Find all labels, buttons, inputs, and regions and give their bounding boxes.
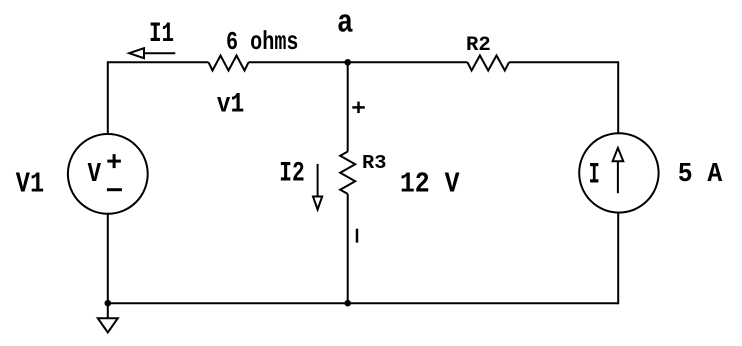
voltage source V1 circle	[68, 134, 148, 214]
wire node a down to R3	[347, 62, 349, 151]
wire right rail lower vertical	[617, 213, 619, 305]
wire top middle horizontal	[249, 61, 468, 63]
resistor R3 zigzag vertical	[340, 152, 355, 194]
voltage source internal minus	[107, 188, 122, 191]
wire R3 down to bottom rail	[347, 194, 349, 303]
svg-text:R3: R3	[362, 152, 387, 174]
svg-text:R2: R2	[466, 34, 491, 57]
wire right rail upper vertical	[617, 61, 619, 133]
junction dot bottom-left	[105, 300, 112, 307]
svg-text:I: I	[589, 159, 600, 193]
svg-text:5 A: 5 A	[678, 160, 723, 190]
node a junction dot	[344, 59, 351, 66]
svg-text:v1: v1	[217, 90, 245, 121]
wire left rail lower vertical	[107, 214, 109, 318]
wire left rail vertical	[107, 61, 109, 134]
polarity plus above R3	[352, 102, 365, 114]
svg-text:I2: I2	[279, 159, 305, 190]
svg-text:I1: I1	[149, 19, 174, 50]
svg-text:v: v	[87, 154, 101, 192]
current arrow I1	[129, 48, 175, 58]
wire top-right horizontal	[509, 61, 618, 63]
junction dot bottom-middle	[344, 300, 351, 307]
svg-text:6 ohms: 6 ohms	[226, 27, 299, 57]
wire top-left horizontal	[108, 61, 209, 63]
ground symbol	[98, 318, 118, 332]
svg-text:12 V: 12 V	[400, 168, 460, 201]
bottom rail wire	[108, 302, 618, 304]
svg-text:a: a	[337, 5, 353, 42]
svg-text:V1: V1	[16, 168, 44, 201]
resistor R2 zigzag	[468, 56, 510, 71]
voltage source internal plus	[107, 154, 121, 168]
current arrow I2	[313, 164, 322, 210]
current source I circle	[579, 133, 658, 212]
resistor 6 ohms zigzag	[209, 56, 249, 71]
polarity minus bar below R3	[356, 229, 359, 243]
current source internal arrow	[613, 148, 624, 193]
